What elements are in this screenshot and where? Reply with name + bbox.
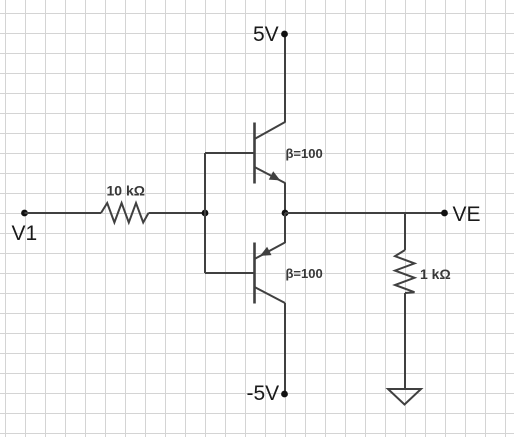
node -5V terminal dot	[281, 391, 288, 398]
svg-text:VE: VE	[453, 203, 481, 226]
junction node output (emitters)	[282, 210, 289, 217]
label VE	[453, 203, 481, 226]
wire Q1 collector to +5V	[284, 34, 286, 123]
svg-text:5V: 5V	[253, 23, 279, 46]
wire R2 to ground	[404, 293, 406, 389]
node V1 terminal dot	[21, 210, 28, 217]
value label 10 kOhm	[107, 183, 145, 199]
wire Q1 emitter to output node	[284, 183, 286, 214]
wire from R1 to base junction	[149, 212, 206, 214]
junction node at base rail	[202, 210, 209, 217]
label beta=100 for Q2	[286, 266, 323, 281]
svg-text:β=100: β=100	[286, 146, 323, 161]
wire branch down to R2	[404, 213, 406, 250]
label V1	[12, 222, 38, 245]
transistor Q1 (NPN)	[255, 122, 286, 184]
node VE terminal dot	[441, 210, 448, 217]
resistor R2 1 kOhm	[395, 250, 415, 293]
value label 1 kOhm	[420, 266, 451, 282]
node +5V terminal dot	[281, 31, 288, 38]
wire base rail vertical	[204, 153, 206, 273]
wire output node to VE	[285, 212, 445, 214]
wire from V1 to resistor R1	[25, 212, 102, 214]
svg-text:10 kΩ: 10 kΩ	[107, 183, 145, 199]
svg-text:V1: V1	[12, 222, 38, 245]
transistor Q2 (PNP)	[255, 243, 286, 304]
wire Q2 collector to -5V	[284, 303, 286, 394]
wire base lead to Q2	[205, 272, 255, 274]
label beta=100 for Q1	[286, 146, 323, 161]
wire base lead to Q1	[205, 152, 255, 154]
svg-text:1 kΩ: 1 kΩ	[420, 266, 451, 282]
label 5V	[253, 23, 279, 46]
svg-text:-5V: -5V	[247, 382, 280, 405]
svg-text:β=100: β=100	[286, 266, 323, 281]
label -5V	[247, 382, 280, 405]
wire Q2 emitter from output node	[284, 213, 286, 243]
resistor R1 10 kOhm	[101, 203, 149, 223]
ground symbol	[388, 389, 421, 405]
